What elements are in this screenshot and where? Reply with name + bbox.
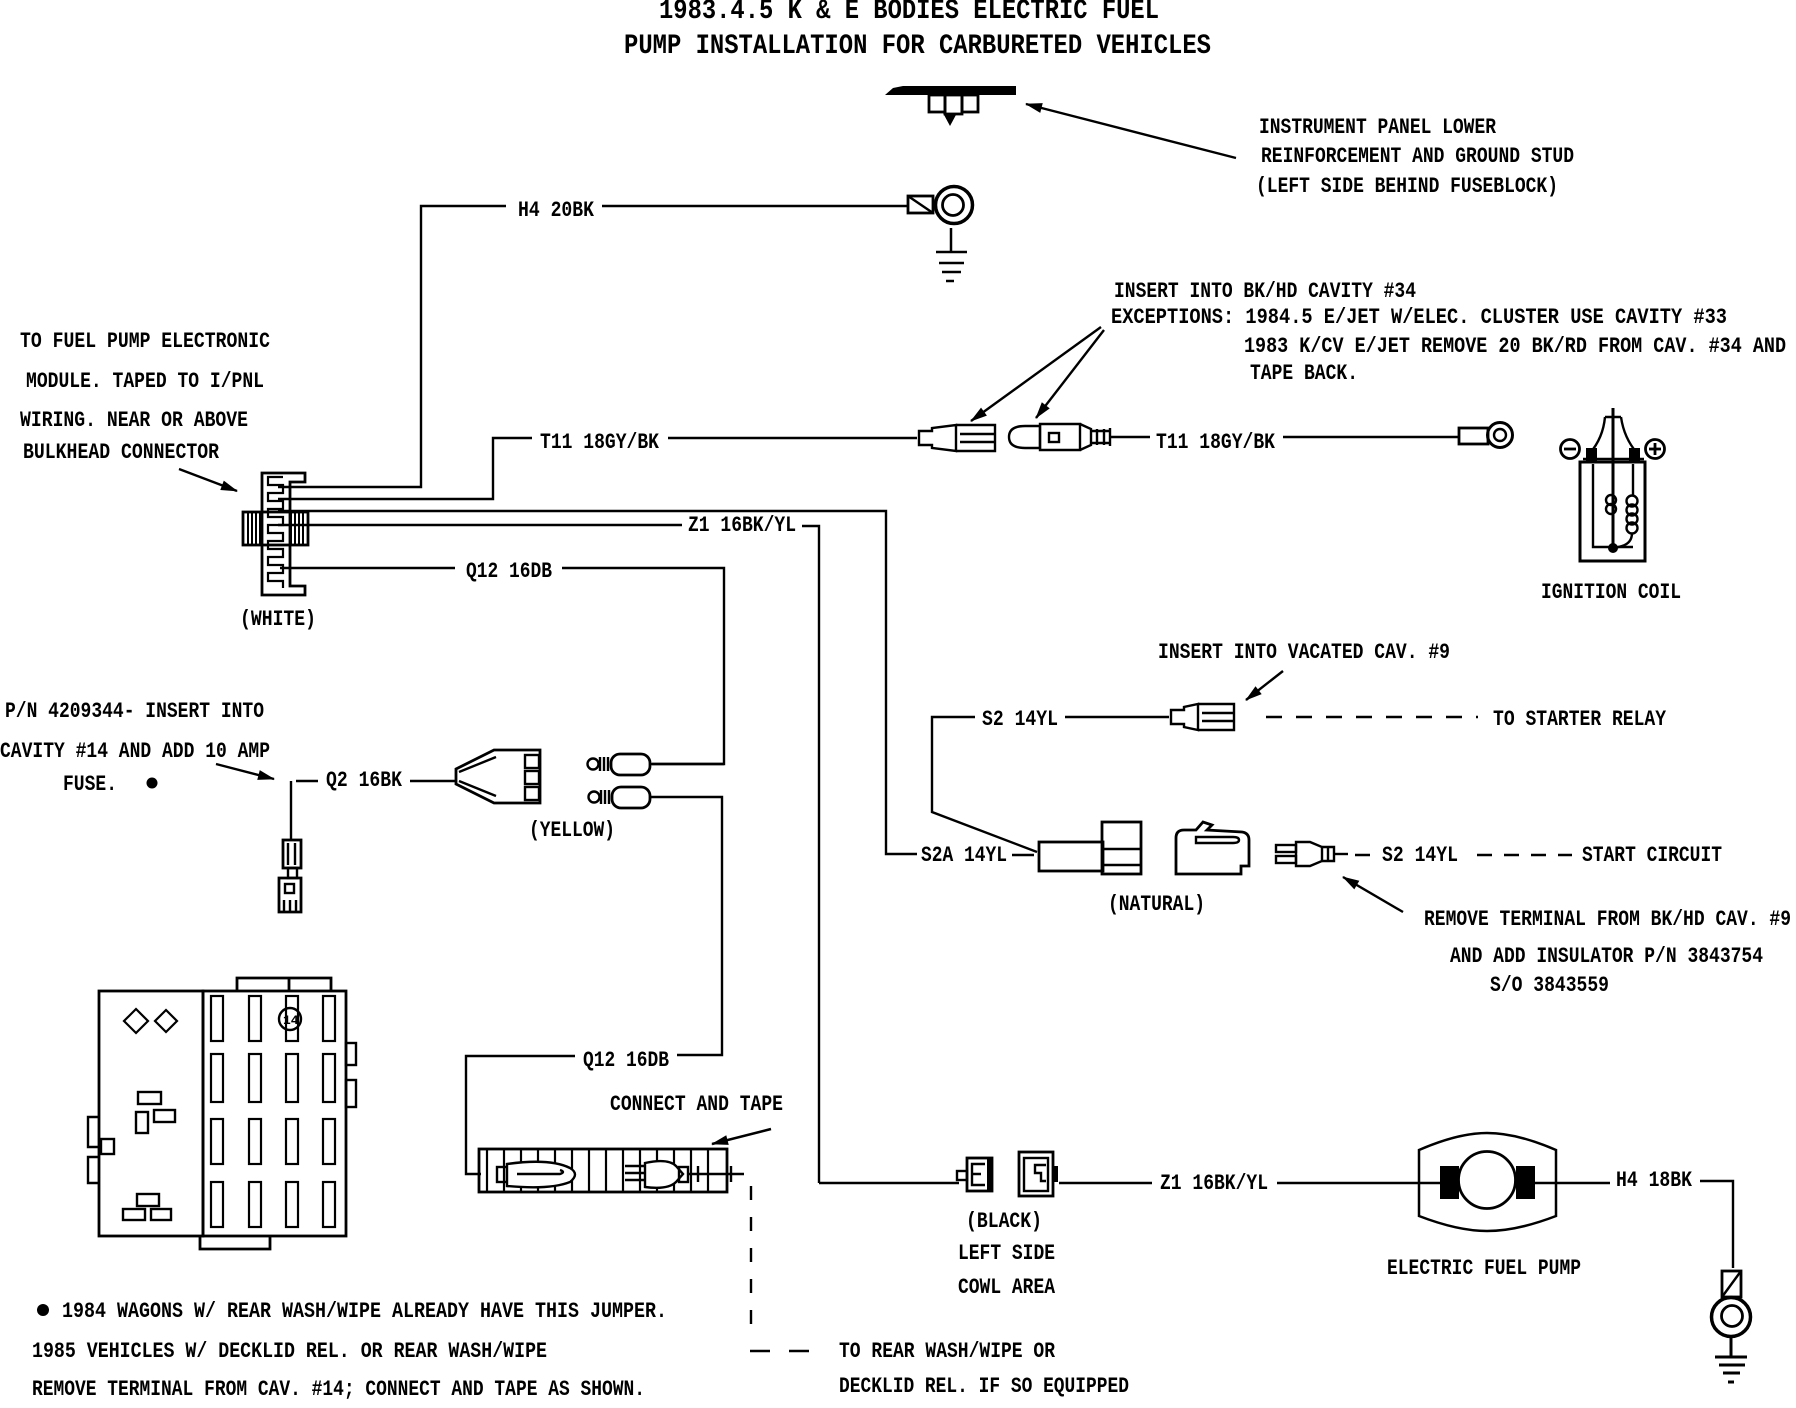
svg-text:BULKHEAD CONNECTOR: BULKHEAD CONNECTOR (23, 440, 220, 465)
svg-text:T11 18GY/BK: T11 18GY/BK (540, 430, 660, 455)
leader arrow to S2 terminal (1246, 671, 1283, 700)
footnote bullet (1984 wagons) (37, 1304, 49, 1316)
svg-text:COWL AREA: COWL AREA (958, 1275, 1056, 1300)
svg-text:CONNECT AND TAPE: CONNECT AND TAPE (610, 1092, 783, 1117)
dashed wire to rear wash/wipe (750, 1186, 752, 1340)
wire bullet lower to Q12 jumper (650, 797, 722, 1055)
ignition coil (1561, 408, 1665, 561)
wire Q2 16BK (291, 781, 456, 840)
leader arrow connect and tape (712, 1129, 771, 1144)
svg-text:H4 20BK: H4 20BK (518, 198, 595, 223)
svg-text:1983.4.5 K & E BODIES ELECTRIC: 1983.4.5 K & E BODIES ELECTRIC FUEL (659, 0, 1159, 27)
terminal T11 male bullet (1009, 424, 1110, 450)
wire Q12 16DB to lamp jumper (466, 1056, 575, 1174)
svg-text:S2 14YL: S2 14YL (1382, 843, 1458, 868)
svg-text:P/N 4209344- INSERT INTO: P/N 4209344- INSERT INTO (5, 699, 264, 724)
svg-text:Q2 16BK: Q2 16BK (326, 768, 403, 793)
ring terminal at ignition coil (1459, 423, 1513, 448)
jumper lamp strip (connect and tape) (479, 1149, 744, 1192)
svg-text:REINFORCEMENT AND GROUND STUD: REINFORCEMENT AND GROUND STUD (1261, 144, 1574, 169)
terminal T11 female spade (919, 425, 995, 451)
wire T11 18GY/BK (right) (1110, 436, 1459, 438)
svg-text:TO STARTER RELAY: TO STARTER RELAY (1493, 707, 1667, 732)
svg-text:S2 14YL: S2 14YL (982, 707, 1058, 732)
dashed wire to starter relay (1266, 716, 1478, 718)
svg-text:INSERT INTO VACATED CAV. #9: INSERT INTO VACATED CAV. #9 (1158, 640, 1450, 665)
svg-text:AND ADD INSULATOR P/N 3843754: AND ADD INSULATOR P/N 3843754 (1450, 944, 1763, 969)
wire bullet upper to Q12 (650, 763, 724, 765)
connector (black) male half (957, 1158, 993, 1191)
svg-text:1985 VEHICLES W/ DECKLID REL.: 1985 VEHICLES W/ DECKLID REL. OR REAR WA… (32, 1339, 547, 1364)
svg-text:WIRING. NEAR OR ABOVE: WIRING. NEAR OR ABOVE (20, 408, 248, 433)
leader arrow to Q2 wire (216, 764, 274, 779)
wire S2A 14YL (bulkhead to natural connector) (278, 511, 917, 854)
svg-text:PUMP INSTALLATION FOR CARBURET: PUMP INSTALLATION FOR CARBURETED VEHICLE… (624, 31, 1211, 62)
svg-text:(LEFT SIDE BEHIND FUSEBLOCK): (LEFT SIDE BEHIND FUSEBLOCK) (1256, 174, 1558, 199)
fuse block (88, 978, 356, 1249)
leader arrow remove terminal (1343, 877, 1403, 912)
wire T11 18GY/BK (left) (278, 438, 917, 499)
bulkhead connector (white) (243, 473, 308, 595)
svg-text:DECKLID REL. IF SO EQUIPPED: DECKLID REL. IF SO EQUIPPED (839, 1374, 1129, 1399)
footnote bullet (147, 778, 158, 789)
svg-text:CAVITY #14 AND ADD 10 AMP: CAVITY #14 AND ADD 10 AMP (0, 739, 270, 764)
svg-text:INSERT INTO BK/HD CAVITY #34: INSERT INTO BK/HD CAVITY #34 (1114, 279, 1416, 304)
svg-text:MODULE. TAPED TO I/PNL: MODULE. TAPED TO I/PNL (26, 369, 264, 394)
leader arrow to ground stud (1026, 104, 1236, 158)
ground (fuel pump) (1715, 1337, 1747, 1382)
svg-text:1983 K/CV E/JET REMOVE 20 BK/R: 1983 K/CV E/JET REMOVE 20 BK/RD FROM CAV… (1244, 334, 1786, 359)
svg-text:14: 14 (283, 1013, 299, 1028)
connector Y (yellow) (456, 750, 540, 803)
connector (natural) body (1039, 822, 1141, 874)
wire H4 20BK (278, 206, 908, 487)
svg-text:S2A 14YL: S2A 14YL (921, 843, 1007, 868)
bullet terminal lower (589, 787, 651, 808)
svg-text:Z1 16BK/YL: Z1 16BK/YL (688, 513, 796, 538)
connector (natural) cover (1176, 822, 1249, 874)
svg-text:Q12 16DB: Q12 16DB (466, 559, 552, 584)
bullet terminal upper (588, 754, 651, 775)
svg-text:T11 18GY/BK: T11 18GY/BK (1156, 430, 1276, 455)
svg-text:Z1 16BK/YL: Z1 16BK/YL (1160, 1171, 1268, 1196)
svg-text:REMOVE TERMINAL FROM CAV. #14;: REMOVE TERMINAL FROM CAV. #14; CONNECT A… (32, 1377, 645, 1402)
leader arrow to bulkhead connector (179, 469, 237, 491)
svg-text:START CIRCUIT: START CIRCUIT (1582, 843, 1722, 868)
electric fuel pump (1419, 1133, 1556, 1231)
svg-text:Q12 16DB: Q12 16DB (583, 1048, 669, 1073)
svg-text:H4 18BK: H4 18BK (1616, 1168, 1693, 1193)
wire Z1 16BK/YL (bottom left) (819, 1182, 959, 1184)
terminal S2 male (start circuit) (1276, 842, 1348, 866)
svg-text:(NATURAL): (NATURAL) (1108, 892, 1205, 917)
svg-text:LEFT SIDE: LEFT SIDE (958, 1241, 1055, 1266)
wire S2 14YL (932, 717, 1169, 852)
svg-text:EXCEPTIONS: 1984.5 E/JET W/ELE: EXCEPTIONS: 1984.5 E/JET W/ELEC. CLUSTER… (1111, 305, 1727, 330)
svg-text:INSTRUMENT PANEL LOWER: INSTRUMENT PANEL LOWER (1259, 115, 1497, 140)
ground (instrument panel) (936, 228, 967, 281)
wire H4 18BK (1556, 1181, 1733, 1268)
svg-text:S/O 3843559: S/O 3843559 (1490, 973, 1609, 998)
svg-text:FUSE.: FUSE. (63, 772, 117, 797)
svg-text:ELECTRIC FUEL PUMP: ELECTRIC FUEL PUMP (1387, 1256, 1581, 1281)
svg-text:TO FUEL PUMP ELECTRONIC: TO FUEL PUMP ELECTRONIC (20, 329, 270, 354)
connector (black) female half (1019, 1152, 1058, 1196)
wire Q12 16DB (bulkhead to bullet) (280, 568, 724, 764)
svg-text:(BLACK): (BLACK) (966, 1209, 1042, 1234)
terminal Q2 spade (279, 840, 301, 912)
leader arrow to T11 male terminal (1036, 330, 1104, 418)
svg-text:IGNITION COIL: IGNITION COIL (1541, 580, 1681, 605)
dashed wire to rear wash/wipe (horizontal) (750, 1350, 809, 1352)
svg-text:REMOVE TERMINAL FROM BK/HD CAV: REMOVE TERMINAL FROM BK/HD CAV. #9 (1424, 907, 1791, 932)
svg-text:(YELLOW): (YELLOW) (529, 818, 615, 843)
dashed wire start circuit (1355, 854, 1572, 856)
svg-text:1984 WAGONS W/ REAR WASH/WIPE: 1984 WAGONS W/ REAR WASH/WIPE ALREADY HA… (62, 1299, 667, 1324)
instrument panel ground stud (885, 86, 1016, 126)
svg-text:(WHITE): (WHITE) (240, 607, 316, 632)
wire Z1 16BK/YL (bulkhead run) (278, 525, 819, 1183)
svg-text:TO REAR WASH/WIPE OR: TO REAR WASH/WIPE OR (839, 1339, 1056, 1364)
svg-text:TAPE BACK.: TAPE BACK. (1250, 361, 1358, 386)
wire Z1 16BK/YL (bottom middle) (1059, 1182, 1419, 1184)
ring terminal H4 (instrument panel) (908, 187, 973, 224)
wire S2A dash (1012, 854, 1034, 856)
terminal S2 female spade (1171, 704, 1234, 730)
leader arrow to T11 female terminal (971, 327, 1101, 421)
ring terminal H4 (fuel pump ground) (1712, 1271, 1751, 1337)
